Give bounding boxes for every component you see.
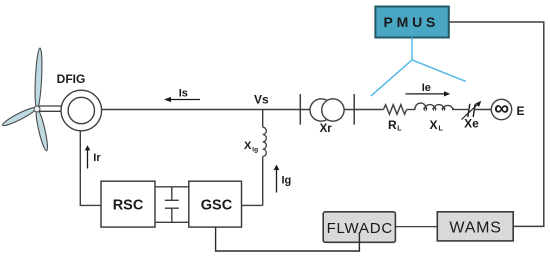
svg-text:X: X: [430, 118, 438, 132]
infinite bus E circle: [491, 99, 511, 119]
Ie arrow: [406, 93, 446, 95]
svg-text:WAMS: WAMS: [449, 220, 501, 237]
Is arrow: [169, 99, 201, 101]
Ir arrow: [87, 150, 89, 169]
wire PMUS to WAMS: [449, 22, 544, 226]
svg-text:Vs: Vs: [254, 93, 269, 107]
inductor Xlg: [263, 127, 267, 156]
wire Xe to infinite bus: [475, 109, 491, 111]
svg-text:GSC: GSC: [201, 198, 233, 214]
svg-text:lg: lg: [252, 147, 258, 154]
wire FLWADC to WAMS: [395, 226, 437, 228]
transformer Xr right bar: [353, 94, 355, 125]
wind turbine blade lower-right: [34, 108, 50, 151]
PMUS block: [375, 7, 448, 38]
wind turbine blade lower-left: [1, 105, 38, 128]
svg-text:Ir: Ir: [93, 152, 101, 164]
DC link capacitor: [171, 187, 173, 201]
svg-text:X: X: [244, 140, 252, 152]
transformer Xr left bar: [299, 94, 301, 125]
PMU measurement line vertical (light blue): [411, 38, 413, 60]
converter RSC: [101, 181, 155, 227]
svg-text:∞: ∞: [494, 97, 509, 120]
converter GSC: [189, 181, 242, 227]
svg-text:L: L: [439, 126, 444, 133]
wire GSC to Vs node: [242, 204, 263, 206]
generator DFIG double circle: [61, 90, 102, 131]
rotor wire: [80, 131, 101, 206]
turbine hub: [34, 106, 40, 112]
WAMS block: [437, 212, 513, 241]
PMU measurement line right branch: [412, 60, 466, 82]
svg-text:Xr: Xr: [320, 123, 333, 135]
wind turbine blade up: [34, 48, 43, 109]
wire into FLWADC bottom: [358, 232, 360, 242]
resistor RL: [383, 105, 406, 115]
svg-text:E: E: [517, 104, 525, 118]
node Vs vertical wire down: [262, 110, 264, 128]
Ig arrow: [276, 169, 278, 193]
wire inductor to Xe: [452, 109, 468, 111]
wire resistor to inductor: [407, 109, 416, 111]
DC link bottom wire: [155, 221, 189, 223]
svg-text:PMUS: PMUS: [383, 14, 439, 30]
PMU measurement line left branch: [371, 60, 412, 96]
transformer Xr circles: [310, 99, 332, 121]
svg-text:L: L: [397, 126, 402, 133]
FLWADC block: [323, 212, 395, 243]
transformer wire between bars: [300, 109, 354, 111]
variable reactance Xe bars: [468, 104, 470, 117]
variable reactance Xe arrow: [462, 104, 479, 120]
svg-text:Is: Is: [179, 88, 188, 100]
inductor XL: [415, 103, 453, 109]
svg-text:DFIG: DFIG: [57, 72, 86, 86]
svg-text:RSC: RSC: [113, 198, 144, 214]
svg-text:Xe: Xe: [464, 117, 479, 131]
wire GSC bottom to FLWADC: [216, 227, 360, 251]
svg-text:Ie: Ie: [422, 82, 431, 94]
wire transformer to resistor: [354, 109, 383, 111]
shaft: [39, 105, 62, 107]
stator wire: [102, 109, 301, 111]
DC link top wire: [155, 186, 189, 188]
svg-text:Ig: Ig: [282, 175, 292, 187]
svg-text:R: R: [388, 118, 397, 132]
